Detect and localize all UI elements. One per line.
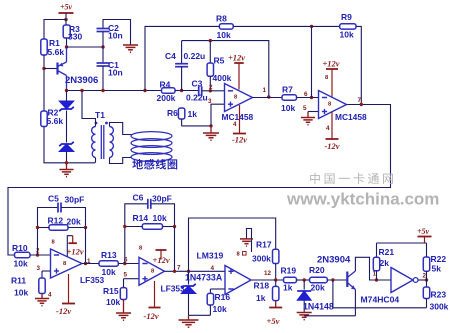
resistor R18 1k: [254, 280, 279, 303]
op-amp U1A MC1458: [222, 84, 254, 123]
inverter U5 M74HC04: [361, 268, 419, 305]
svg-text:R14: R14: [133, 213, 149, 223]
junction bottom rail ground tap: [65, 161, 68, 164]
wire U3B output to LM319 plus input: [165, 270, 226, 272]
power -12v for U1A: [232, 105, 247, 145]
svg-text:+12v: +12v: [322, 59, 339, 69]
ground for C2: [123, 45, 138, 52]
wire secondary top lead to coil: [110, 123, 132, 135]
power -12v for U1B: [324, 112, 339, 151]
svg-text:R10: R10: [12, 243, 28, 253]
wire pin3 to U3A: [42, 270, 51, 272]
resistor R19 1k: [281, 266, 297, 293]
wire R2 bottom rail: [44, 127, 95, 163]
resistor R21 2k pull-up: [373, 243, 394, 280]
svg-text:M74HC04: M74HC04: [361, 295, 400, 305]
svg-text:R4: R4: [160, 80, 171, 90]
svg-text:30pF: 30pF: [152, 194, 172, 204]
svg-text:4: 4: [233, 121, 237, 128]
svg-text:-12v: -12v: [144, 311, 159, 321]
wire R16 to LM319 minus input: [210, 288, 225, 290]
wire secondary bottom lead to coil: [110, 158, 132, 164]
svg-text:4: 4: [326, 125, 330, 132]
wire pin3 to op-amp U1A: [211, 104, 225, 126]
wire U3A output to R13: [82, 263, 99, 265]
svg-text:20k: 20k: [311, 283, 325, 293]
svg-text:0.22u: 0.22u: [186, 93, 208, 103]
transformer T1: [92, 110, 114, 159]
resistor R8 10k feedback: [145, 14, 312, 91]
ground bottom rail: [60, 163, 74, 177]
svg-text:7: 7: [177, 265, 181, 272]
svg-text:5: 5: [303, 105, 307, 112]
inductor sense coil ellipses: [131, 132, 172, 162]
junction R12 right node: [84, 226, 87, 229]
junction node91 R8 tap: [143, 89, 146, 92]
op-amp U3A LF353: [51, 249, 105, 285]
resistor R11 10k: [11, 271, 45, 298]
svg-text:3: 3: [208, 98, 212, 105]
wire R19 to node A: [297, 279, 310, 281]
resistor R16 10k: [207, 289, 230, 315]
wire U1A output to R7: [253, 97, 283, 99]
wire pin5 to U3B: [124, 278, 140, 280]
wire primary bottom lead: [95, 158, 97, 163]
capacitor C3 0.22u input: [182, 79, 211, 103]
svg-text:10k: 10k: [153, 213, 167, 223]
ground pin of comparator LM319: [240, 229, 253, 253]
ground below R11: [35, 294, 49, 306]
junction pin6 feedback tap U3B: [123, 262, 126, 265]
transistor Q1 2N3906: [58, 47, 99, 91]
power +5v below R18: [267, 301, 283, 326]
wire primary top lead: [82, 91, 96, 127]
ground below U1A: [203, 126, 219, 140]
svg-text:R20: R20: [309, 265, 325, 275]
wire C4 top rail to output: [182, 41, 269, 97]
wire oscillator node91 rail: [67, 90, 162, 92]
resistor R7 10k: [281, 85, 297, 114]
svg-text:400k: 400k: [213, 73, 232, 83]
svg-text:2: 2: [209, 84, 213, 91]
label sense coil 地感线圈: [132, 159, 177, 169]
junction R12 left node: [36, 226, 39, 229]
resistor R22 5k: [423, 243, 446, 280]
svg-text:R6: R6: [167, 108, 178, 118]
svg-text:-12v: -12v: [232, 135, 247, 145]
svg-text:2k: 2k: [380, 258, 390, 268]
junction C2/C1 node47: [101, 45, 104, 48]
svg-text:+5v: +5v: [267, 316, 280, 326]
svg-text:R19: R19: [281, 266, 297, 276]
capacitor C5 30pF feedback: [38, 194, 86, 256]
svg-text:0.22u: 0.22u: [184, 51, 206, 61]
wire +5v node to R1 top: [44, 20, 66, 40]
svg-text:6: 6: [304, 91, 308, 98]
junction R14 left node: [123, 225, 126, 228]
svg-text:+12v: +12v: [67, 247, 84, 257]
capacitor C1 10n: [97, 47, 123, 91]
diode D4 1N4148: [297, 280, 334, 312]
svg-text:C3: C3: [192, 79, 203, 89]
wire node47 to C2/C1 branch: [67, 46, 104, 48]
wire feedback down to output U3A: [85, 228, 87, 264]
wire LM319 output to R19: [251, 279, 284, 281]
junction R21 bottom inverter input: [375, 278, 378, 281]
power +5v right: [417, 227, 432, 243]
junction +5v node: [64, 18, 67, 21]
wire pin2 to op-amp U1A: [210, 90, 224, 92]
wire ground rail below R6: [182, 125, 211, 127]
resistor R12 20k feedback: [38, 216, 86, 231]
junction op-amp pin2 node: [209, 89, 212, 92]
junction node47 at R3 bottom: [65, 45, 68, 48]
svg-text:MC1458: MC1458: [335, 112, 367, 122]
watermark chinese text: [310, 173, 393, 184]
junction base node: [42, 67, 45, 70]
wire base node to Q1 base: [44, 68, 58, 70]
svg-text:LM319: LM319: [197, 251, 224, 261]
resistor R15 10k: [103, 279, 127, 307]
svg-text:4: 4: [48, 292, 52, 299]
ground below U1B pin5: [301, 112, 315, 125]
resistor R1 5.6k: [41, 38, 65, 57]
junction LM319 output node: [274, 278, 277, 281]
junction node91 transformer tap: [80, 89, 83, 92]
svg-text:R22: R22: [431, 254, 447, 264]
svg-text:R18: R18: [254, 281, 270, 291]
junction node91 at collector: [65, 89, 68, 92]
svg-text:R7: R7: [282, 85, 293, 95]
svg-text:1k: 1k: [256, 293, 266, 303]
junction feedback tap on U3B output: [173, 270, 176, 273]
junction node A diode tap: [303, 278, 306, 281]
junction R14 right node: [173, 225, 176, 228]
wire pin5 to U1B: [308, 111, 319, 113]
svg-text:R23: R23: [431, 290, 447, 300]
wire R1 bottom to base node: [43, 55, 45, 111]
wire collector detour around R21: [355, 257, 391, 280]
svg-text:R15: R15: [103, 286, 119, 296]
resistor R6 1k: [167, 108, 197, 126]
transistor Q2 2N3904: [317, 255, 355, 290]
ground big below zener: [179, 315, 199, 327]
junction pin3 ground node: [209, 124, 212, 127]
resistor R17 300k positive feedback: [189, 218, 279, 280]
wire U1B output long route to bottom stage: [8, 105, 391, 256]
svg-text:5: 5: [124, 272, 128, 279]
zener diode D1 upper clamp: [59, 91, 74, 143]
svg-text:200k: 200k: [157, 93, 176, 103]
svg-text:MC1458: MC1458: [222, 112, 254, 122]
svg-text:2N3904: 2N3904: [317, 255, 351, 266]
junction R5 top tap: [209, 39, 212, 42]
svg-text:R9: R9: [341, 12, 352, 22]
svg-text:1k: 1k: [188, 109, 198, 119]
power +5v supply top: [59, 3, 74, 20]
svg-text:10k: 10k: [213, 304, 227, 314]
resistor R3 330: [63, 20, 82, 42]
svg-text:10n: 10n: [108, 31, 123, 41]
comparator U4 LM319: [197, 251, 252, 295]
svg-text:20k: 20k: [67, 217, 81, 227]
wire R7 to U1B pin6: [297, 97, 319, 99]
resistor R10 10k: [12, 243, 30, 269]
svg-text:10k: 10k: [217, 30, 231, 40]
capacitor C2 10n: [97, 20, 131, 48]
capacitor C6 30pF feedback: [125, 193, 175, 264]
svg-text:R12: R12: [48, 216, 64, 226]
wire node B to R23 feedback rail: [333, 280, 427, 308]
capacitor C4 0.22u feedback: [165, 41, 205, 91]
svg-text:T1: T1: [95, 110, 105, 120]
resistor R13 10k: [99, 250, 118, 277]
resistor R23 300k feedback: [423, 280, 448, 312]
svg-text:5.6k: 5.6k: [48, 47, 65, 57]
power +12v for U3B: [139, 246, 170, 266]
wire R20 to node B base: [327, 279, 347, 281]
svg-text:3: 3: [37, 265, 41, 272]
svg-text:R11: R11: [11, 276, 26, 286]
junction pin2 feedback tap: [36, 253, 39, 256]
resistor R5 400k: [207, 41, 232, 91]
wire R10 to U3A pin2: [30, 254, 51, 256]
ground below 1N4148: [297, 313, 312, 320]
svg-text:12: 12: [264, 270, 272, 277]
zener diode D2 lower clamp: [59, 142, 74, 163]
svg-text:300k: 300k: [252, 254, 271, 264]
svg-text:10k: 10k: [14, 259, 28, 269]
junction node91 C1 tap: [101, 89, 104, 92]
svg-text:300k: 300k: [430, 302, 449, 312]
svg-text:C6: C6: [133, 193, 144, 203]
power -12v for U3A: [48, 274, 75, 316]
svg-text:+5v: +5v: [417, 227, 430, 236]
zener diode D3 1N4733A: [181, 271, 223, 315]
svg-text:R5: R5: [214, 56, 225, 66]
svg-text:1N4733A: 1N4733A: [185, 273, 223, 283]
svg-text:30pF: 30pF: [65, 195, 85, 205]
junction pin6 node feedback: [310, 96, 313, 99]
wire ground rail R16/zener: [189, 314, 211, 316]
junction C4/R6 node: [180, 89, 183, 92]
junction U3A output node: [84, 262, 87, 265]
svg-text:R8: R8: [216, 14, 227, 24]
power +12v for U3A: [52, 236, 84, 257]
svg-text:10k: 10k: [106, 297, 120, 307]
power +12v for U1B: [322, 59, 339, 97]
svg-text:+5v: +5v: [60, 3, 73, 12]
junction zener node on U3B output: [187, 270, 190, 273]
svg-text:5.6k: 5.6k: [47, 116, 64, 126]
power +12v for U1A: [228, 53, 245, 90]
junction node B: [331, 278, 334, 281]
svg-text:R13: R13: [101, 250, 117, 260]
junction U1A output node: [267, 95, 270, 98]
resistor R9 10k feedback: [312, 12, 362, 105]
junction inverter output node: [425, 278, 428, 281]
svg-text:R17: R17: [256, 240, 272, 250]
op-amp U1B MC1458: [319, 91, 367, 123]
wire feedback down to U3B output: [174, 227, 176, 272]
wire R3 bottom to node47: [66, 38, 68, 47]
wire top node down to pin6: [311, 26, 313, 97]
svg-text:330: 330: [68, 32, 82, 42]
svg-text:www.yktchina.com: www.yktchina.com: [286, 190, 439, 209]
wire emitter down: [354, 290, 356, 316]
resistor R14 10k feedback: [125, 213, 175, 229]
ground below R15: [116, 300, 131, 321]
svg-text:10k: 10k: [340, 30, 354, 40]
resistor R2 5.6k: [41, 108, 64, 127]
svg-text:1k: 1k: [283, 283, 293, 293]
svg-text:C5: C5: [48, 194, 59, 204]
junction R8/R9 top node: [310, 25, 313, 28]
wire R13 to U3B pin6: [118, 263, 139, 265]
resistor R4 200k: [157, 80, 176, 104]
wire +5v rail top right: [377, 242, 427, 244]
resistor R20 20k: [309, 265, 327, 293]
svg-text:-12v: -12v: [56, 306, 71, 316]
svg-text:10k: 10k: [102, 267, 116, 277]
svg-text:5k: 5k: [432, 264, 442, 274]
power -12v for U3B: [144, 281, 161, 321]
svg-text:C4: C4: [165, 51, 176, 61]
svg-text:4: 4: [211, 265, 215, 272]
svg-text:R21: R21: [379, 247, 395, 257]
svg-text:1N4148: 1N4148: [303, 302, 334, 312]
svg-text:10k: 10k: [14, 288, 28, 298]
svg-text:-12v: -12v: [324, 141, 339, 151]
svg-text:+12v: +12v: [228, 53, 245, 63]
wire R4 to C4/R6 node: [175, 90, 182, 92]
wire inverter output to R22/R23: [418, 279, 427, 281]
svg-text:1: 1: [263, 87, 267, 94]
op-amp U3B LF353: [139, 257, 185, 293]
svg-text:10n: 10n: [108, 68, 123, 78]
junction R9 output tap: [360, 103, 363, 106]
svg-text:10k: 10k: [281, 103, 295, 113]
wire emitter ground return: [304, 315, 355, 317]
svg-text:LF353: LF353: [161, 284, 186, 294]
svg-text:2N3906: 2N3906: [65, 75, 98, 86]
svg-text:+12v: +12v: [153, 255, 170, 265]
